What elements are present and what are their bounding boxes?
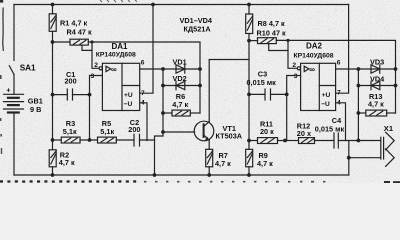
scan artifact: top edge ticks: [100, 0, 137, 2]
switch SA1: [9, 66, 14, 95]
svg-text:20 к: 20 к: [260, 127, 274, 136]
node R12 left: [283, 139, 287, 143]
svg-text:+U: +U: [124, 92, 133, 99]
svg-text:5,1к: 5,1к: [63, 127, 77, 136]
wire: DA2 pin 4 to bottom rail: [336, 103, 346, 141]
svg-text:3: 3: [294, 73, 298, 80]
wire: DA1 pin6 to VD nodes: [140, 68, 200, 70]
wire: R3 to R5: [80, 139, 98, 141]
wire: R4 wiper to DA1 pin 2: [92, 42, 99, 68]
wire: left rail upper: [13, 5, 15, 61]
node rail R7: [207, 173, 211, 177]
connector X1 plug bars: [381, 137, 384, 159]
wire: VT1 emitter to R7: [208, 140, 210, 149]
svg-text:4,7 к: 4,7 к: [172, 100, 188, 109]
svg-text:−U: −U: [321, 101, 330, 108]
svg-text:4,7 к: 4,7 к: [368, 100, 384, 109]
wire: R4 output row to VD right column: [92, 42, 200, 113]
op-amp DA2: [297, 63, 335, 110]
svg-text:9 В: 9 В: [30, 105, 41, 114]
node rail R2: [51, 173, 55, 177]
svg-text:КТ503А: КТ503А: [216, 132, 243, 141]
resistor R11: [249, 138, 285, 144]
svg-text:+U: +U: [322, 92, 331, 99]
wire: R3 left lead: [53, 139, 62, 141]
wire: VD2 row: [163, 85, 200, 87]
svg-text:−U: −U: [124, 101, 133, 108]
svg-text:SA1: SA1: [20, 64, 36, 73]
wire: DA2 pin 7 to top rail: [336, 5, 349, 94]
wire: VD4 row: [358, 85, 395, 87]
svg-text:6: 6: [141, 59, 145, 66]
node R5 left: [88, 138, 92, 142]
node jack upper: [357, 139, 361, 143]
wire: R10 output row to right column: [276, 40, 395, 113]
resistor R7: [206, 149, 213, 175]
svg-text:4,7 к: 4,7 к: [257, 159, 273, 168]
wire: R5 to C2: [116, 139, 134, 141]
svg-text:КД521А: КД521А: [184, 25, 212, 34]
svg-text:2: 2: [94, 62, 98, 69]
scan grain overlay: [0, 0, 400, 183]
svg-text:200: 200: [65, 77, 77, 86]
wire: DA1 pin 4 to bottom rail: [140, 103, 147, 141]
node C1 right: [88, 93, 92, 97]
svg-text:VD2: VD2: [173, 74, 187, 83]
svg-text:R10 47 к: R10 47 к: [257, 29, 287, 38]
node rail C2: [153, 173, 157, 177]
wire: DA1 pin 3 column: [90, 76, 103, 141]
diode VD3: [371, 65, 380, 73]
node R4 wiper: [90, 40, 93, 43]
svg-text:3: 3: [91, 73, 95, 80]
resistor R12: [285, 138, 334, 144]
diode VD4: [371, 81, 380, 89]
resistor R5: [98, 137, 117, 143]
node VD2 right: [198, 84, 202, 88]
scan artifact: top-left corner mark: [0, 0, 3, 3]
node VD4 left: [357, 84, 361, 88]
capacitor C2: [134, 134, 140, 146]
svg-text:R8 4,7 к: R8 4,7 к: [258, 19, 286, 28]
node C3 left: [247, 93, 251, 97]
svg-text:4,7 к: 4,7 к: [59, 158, 75, 167]
wire: VT1 base wire: [163, 131, 195, 133]
wire: DA2 pin6 to VD3 row: [336, 68, 396, 70]
node top rail R8: [247, 3, 251, 7]
svg-text:КР140УД608: КР140УД608: [294, 52, 334, 59]
capacitor C4: [334, 133, 380, 148]
node top rail R1: [51, 3, 55, 7]
battery GB1: [4, 94, 24, 112]
node R6 left: [161, 111, 165, 115]
wire: DA2 pin 3 column: [287, 76, 301, 141]
wire: C2 to ground column: [140, 139, 155, 141]
resistor R3: [61, 137, 80, 143]
wire: VD3/VD4 left column: [357, 69, 359, 141]
svg-text:R4 47 к: R4 47 к: [67, 27, 92, 36]
resistor R13: [358, 110, 395, 116]
svg-text:5,1к: 5,1к: [100, 127, 114, 136]
node R13 left: [357, 111, 361, 115]
op-amp DA1: [99, 63, 140, 110]
svg-text:VD4: VD4: [370, 75, 385, 84]
wire: R8 column down: [248, 41, 250, 141]
resistor R4 trimmer: [53, 39, 93, 45]
resistor R9: [246, 141, 253, 176]
scan artifact: bottom dotted strip dense part: [0, 180, 136, 182]
node VD1 right: [198, 67, 202, 71]
svg-text:20 х: 20 х: [297, 129, 311, 138]
wire: VT1 collector to R8 node: [209, 60, 249, 122]
svg-text:0,015 мк: 0,015 мк: [247, 78, 277, 87]
wire: column x52: [52, 42, 54, 140]
svg-text:VD3: VD3: [370, 58, 384, 67]
node rail R9: [247, 173, 251, 177]
svg-text:X1: X1: [384, 124, 394, 133]
node R10 wiper: [286, 39, 289, 42]
svg-text:200: 200: [128, 125, 140, 134]
node VD4 right: [394, 84, 398, 88]
diode VD2: [176, 81, 185, 89]
node VD3 right: [394, 67, 398, 71]
node VD3 left: [357, 67, 361, 71]
wire: R10 wiper stub: [269, 44, 288, 51]
diode VD1: [176, 65, 185, 73]
svg-text:∞: ∞: [309, 65, 315, 74]
node C3 right: [285, 93, 289, 97]
svg-text:R1 4,7 к: R1 4,7 к: [60, 18, 88, 27]
resistor R8: [246, 5, 253, 41]
node jack lower: [347, 156, 351, 160]
wire: bottom negative rail: [14, 174, 349, 176]
node R1/R4: [51, 40, 55, 44]
svg-text:∞: ∞: [111, 65, 117, 74]
node R11 left: [247, 139, 251, 143]
svg-text:VD1: VD1: [173, 58, 187, 67]
node R3 left: [51, 138, 55, 142]
svg-text:2: 2: [292, 62, 296, 69]
scan artifact: left edge specks: [0, 75, 2, 154]
resistor R2: [49, 140, 56, 175]
node base: [161, 130, 165, 134]
connector X1 lower contact: [349, 149, 394, 167]
wire: top positive rail: [14, 4, 349, 6]
resistor R1: [49, 5, 56, 43]
paper noise: [22, 8, 386, 170]
transistor VT1: [194, 121, 214, 141]
svg-text:4,7 к: 4,7 к: [215, 159, 231, 168]
wire: VD left column: [155, 69, 164, 175]
node C1 left: [51, 93, 55, 97]
wire: DA1 pin 7 to top rail: [140, 5, 153, 94]
node R8/R10: [247, 39, 251, 43]
capacitor C1: [53, 89, 90, 100]
node top rail x153: [151, 3, 155, 7]
resistor R6: [163, 110, 200, 116]
node VD2 left: [161, 84, 165, 88]
scan artifact: bottom dotted strip sparse part: [144, 181, 325, 183]
wire: left rail lower: [13, 113, 15, 176]
svg-text:КР140УД608: КР140УД608: [96, 51, 136, 58]
svg-text:DA2: DA2: [306, 42, 323, 51]
scan artifact: left edge wavy line: [2, 8, 5, 52]
svg-text:6: 6: [337, 59, 341, 66]
wire: R10 wiper to DA2 pin 2: [288, 40, 297, 68]
connector X1 upper contact: [386, 132, 395, 150]
scan artifact: bottom right dashes: [384, 181, 400, 183]
svg-text:+: +: [6, 86, 10, 95]
svg-text:0,015 мк: 0,015 мк: [315, 124, 345, 133]
wire: ground branch down to rail: [348, 141, 350, 176]
resistor R10 trimmer: [249, 38, 276, 44]
svg-text:DA1: DA1: [112, 42, 129, 51]
node VD1 left: [161, 67, 165, 71]
capacitor C3: [249, 89, 287, 100]
wire: R4 wiper stub: [82, 45, 92, 50]
